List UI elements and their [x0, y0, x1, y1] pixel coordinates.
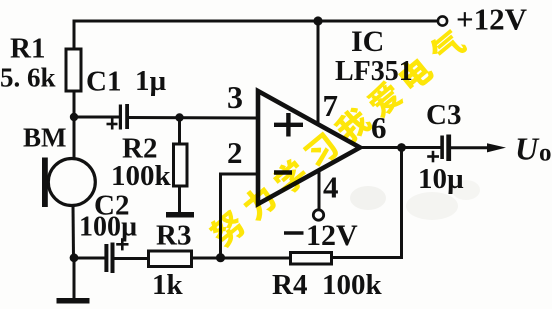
svg-text:o: o [539, 140, 552, 167]
op-amp minus input mark [274, 170, 292, 175]
node junction output R4 [397, 143, 406, 152]
wire pin 4 supply [318, 170, 321, 210]
svg-text:1µ: 1µ [135, 65, 167, 97]
watermark [206, 26, 469, 250]
op-amp plus input mark [274, 113, 303, 137]
op-amp U1 LF351 [258, 91, 360, 204]
label -12V minus sign [284, 231, 304, 235]
node junction BM C2 ground [70, 253, 79, 262]
ground bottom left [57, 298, 90, 304]
wire C2 to R3 [115, 257, 147, 260]
node junction R3 R4 pin2 [216, 253, 225, 262]
svg-text:U: U [515, 131, 540, 167]
wire C1 to pin 3 [129, 116, 258, 120]
svg-text:LF351: LF351 [335, 56, 413, 87]
svg-text:BM: BM [23, 123, 67, 153]
capacitor C3 [440, 135, 451, 162]
wire feedback to R4 [332, 256, 402, 259]
wire feedback vertical [400, 148, 403, 258]
wire pin 2 down to feedback node [219, 174, 222, 258]
wire bottom node to C2 [74, 257, 104, 260]
wire top supply rail [74, 20, 437, 23]
wire microphone to bottom node [72, 205, 76, 258]
wire output to C3 [360, 146, 440, 149]
node junction pin3 R2 [175, 113, 183, 121]
svg-text:IC: IC [351, 25, 384, 58]
wire R2 top lead [178, 118, 181, 144]
node junction R1 C1 BM [70, 113, 78, 121]
svg-text:4: 4 [323, 170, 339, 205]
terminal -12V [313, 210, 323, 220]
wire C3 to arrow [451, 146, 496, 149]
wire bottom node to ground [73, 258, 76, 297]
svg-text:7: 7 [323, 88, 339, 123]
resistor R4 [291, 253, 332, 265]
C2 polarity plus [116, 238, 128, 250]
C1 polarity plus [107, 119, 118, 130]
svg-text:100k: 100k [111, 160, 172, 192]
C3 polarity plus [427, 151, 439, 163]
svg-text:R3: R3 [156, 220, 191, 252]
microphone BM [42, 158, 95, 208]
svg-text:10µ: 10µ [418, 163, 464, 195]
wire node A to microphone [73, 118, 76, 159]
svg-text:3: 3 [227, 79, 243, 115]
wire R2 bottom lead [178, 186, 181, 212]
svg-text:100µ: 100µ [79, 212, 137, 243]
wire R1 top lead [73, 21, 76, 49]
terminal +12V [438, 16, 447, 25]
ground under R2 [166, 212, 194, 218]
svg-text:1k: 1k [152, 269, 184, 301]
node junction supply pin7 [313, 16, 322, 25]
wire pin 7 supply [317, 21, 320, 124]
wire R3 to feedback node [193, 257, 221, 260]
svg-text:R1: R1 [10, 33, 45, 65]
svg-text:2: 2 [227, 135, 243, 170]
svg-text:+12V: +12V [456, 2, 528, 37]
capacitor C1 [119, 104, 129, 130]
wire pin 2 stub [221, 173, 259, 176]
resistor R2 [174, 144, 188, 186]
output arrow [487, 143, 506, 152]
wire node A to C1 [74, 116, 118, 119]
svg-text:5. 6k: 5. 6k [0, 63, 56, 93]
svg-text:C3: C3 [426, 99, 461, 131]
svg-text:12V: 12V [306, 219, 358, 252]
svg-text:R4 100k: R4 100k [272, 269, 382, 301]
capacitor C2 [104, 243, 114, 274]
wire R1 bottom lead [73, 91, 76, 118]
wire R4 to feedback node [221, 257, 290, 260]
resistor R1 [66, 49, 81, 91]
svg-text:C1: C1 [86, 66, 121, 98]
smudge [350, 180, 480, 220]
resistor R3 [149, 251, 192, 267]
